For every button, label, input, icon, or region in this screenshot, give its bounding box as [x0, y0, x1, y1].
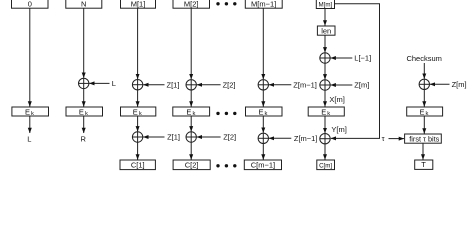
wire 0 to Ek [29, 8, 31, 106]
arrow Z into xor2 M[m-1] [269, 137, 291, 139]
xor M[m-1] + Z [258, 80, 268, 90]
svg-text:Z[2]: Z[2] [223, 133, 236, 142]
svg-text:Checksum: Checksum [406, 54, 441, 63]
box Ek col0 [12, 107, 49, 116]
xor Checksum + Z[m] [419, 79, 429, 89]
arrow L[-1] into xor [331, 57, 353, 59]
arrow L into xor [89, 82, 109, 84]
wire len to xor L[-1] [324, 35, 326, 52]
wire Ek to first tau bits [423, 116, 425, 134]
svg-text:L: L [27, 134, 31, 143]
wire xor2 to C M[2] [190, 142, 192, 159]
svg-text:M[m]: M[m] [319, 2, 333, 9]
box M[m-1] [245, 0, 282, 8]
svg-text:first τ bits: first τ bits [409, 134, 439, 143]
wire M[1] to xor [137, 8, 139, 79]
box Ek checksum [407, 107, 443, 116]
wire xor to Ek M[2] [190, 90, 192, 107]
box 0 [12, 0, 49, 8]
wire xor to xor Z[m] [324, 63, 326, 79]
wire xor2 to C M[m-1] [262, 144, 264, 160]
svg-text:Z[m−1]: Z[m−1] [294, 134, 318, 143]
box C M[2] [173, 160, 210, 170]
svg-text:E: E [258, 107, 263, 116]
label Ek colN [79, 107, 88, 117]
wire Ek colN to R [83, 116, 85, 133]
svg-text:Z[m]: Z[m] [354, 81, 369, 90]
svg-text:M[m−1]: M[m−1] [251, 0, 276, 9]
svg-text:X[m]: X[m] [329, 95, 344, 104]
wire first tau bits to T [422, 143, 424, 159]
box T [415, 160, 433, 169]
svg-text:len: len [321, 27, 331, 36]
box M[1] [121, 0, 156, 8]
arrow Z[m] into checksum xor [430, 83, 450, 85]
dots top row [216, 2, 236, 5]
wire Ek col0 to L [29, 116, 31, 133]
xor len + L[-1] [320, 53, 330, 63]
svg-text:M[1]: M[1] [131, 0, 146, 9]
svg-text:E: E [79, 107, 84, 116]
svg-text:0: 0 [28, 0, 32, 9]
svg-text:Z[m]: Z[m] [452, 80, 467, 89]
xor xor2 M[1] [132, 132, 142, 142]
label Ek col0 [25, 107, 34, 117]
wire Ek to xor2 M[1] [137, 116, 139, 131]
svg-text:E: E [321, 107, 326, 116]
wire xor3 to C[m] [324, 144, 326, 160]
box first tau bits [405, 134, 442, 143]
box Ek M[1] [121, 107, 156, 116]
svg-text:k: k [265, 111, 268, 117]
svg-text:E: E [25, 107, 30, 116]
svg-text:N: N [81, 0, 86, 9]
arrow Z into xor M[1] [143, 84, 164, 86]
svg-text:C[2]: C[2] [185, 161, 199, 170]
wire Checksum to xor [423, 63, 425, 79]
wire N to xor [83, 8, 85, 78]
arrow Z into xor M[m-1] [269, 84, 291, 86]
label Ek M[2] [186, 107, 195, 117]
label Ek M[m] [321, 107, 330, 117]
svg-text:k: k [31, 111, 34, 117]
wire xor to Ek M[m] [324, 90, 326, 106]
wire xor to Ek M[1] [137, 90, 139, 107]
arrow Z into xor2 M[2] [197, 136, 221, 138]
svg-text:L: L [112, 79, 116, 88]
svg-text:Z[m−1]: Z[m−1] [293, 81, 317, 90]
wire Ek to xor3 M[m] [324, 116, 326, 133]
svg-text:k: k [139, 111, 142, 117]
box C M[1] [120, 160, 155, 170]
box C M[m-1] [244, 160, 281, 170]
box len [317, 26, 335, 35]
svg-text:R: R [80, 134, 86, 143]
xor output xor M[m] [320, 134, 330, 144]
svg-text:C[m−1]: C[m−1] [251, 161, 275, 170]
svg-text:τ: τ [382, 134, 385, 143]
xor xor2 M[m-1] [258, 133, 268, 143]
label Ek M[1] [133, 107, 142, 117]
svg-text:M[2]: M[2] [184, 0, 199, 9]
xor M[1] + Z [132, 80, 142, 90]
xor + Z[m] [320, 80, 330, 90]
box C[m] [317, 160, 335, 170]
svg-text:Y[m]: Y[m] [331, 125, 346, 134]
wire Ek to xor2 M[2] [190, 116, 192, 131]
xor xor2 M[2] [186, 132, 196, 142]
svg-text:E: E [186, 107, 191, 116]
box Ek colN [66, 107, 103, 116]
box Ek M[m] [308, 107, 344, 116]
dots bottom row [216, 164, 236, 167]
wire xor to Ek M[m-1] [262, 90, 264, 107]
svg-text:C[1]: C[1] [131, 161, 145, 170]
box Ek M[m-1] [246, 107, 283, 116]
svg-text:C[m]: C[m] [319, 163, 332, 170]
wire M[2] to xor [190, 8, 192, 79]
box N [66, 0, 102, 8]
xor M[2] + Z [186, 80, 196, 90]
wire M[m] to len [324, 9, 326, 26]
svg-text:Z[2]: Z[2] [223, 81, 236, 90]
svg-text:k: k [426, 111, 429, 117]
label Ek checksum [419, 107, 428, 117]
box M[m] [316, 0, 334, 9]
box Ek M[2] [173, 107, 210, 116]
label Ek M[m-1] [258, 107, 267, 117]
arrow Z[m] into xor [331, 84, 353, 86]
arrow Z into xor M[2] [197, 84, 221, 86]
svg-text:k: k [192, 111, 195, 117]
svg-text:L[−1]: L[−1] [354, 54, 371, 63]
arrow Z into xor2 M[1] [143, 136, 164, 138]
svg-text:T: T [421, 160, 426, 169]
wire xor to Ek colN [83, 89, 85, 107]
wire Ek to xor2 M[m-1] [262, 116, 264, 133]
xor N + L [79, 78, 89, 88]
arrow tau into box [389, 138, 405, 140]
wire M[m] bypass to output xor [331, 4, 380, 139]
box M[2] [173, 0, 210, 8]
svg-text:k: k [327, 111, 330, 117]
dots middle row [216, 112, 236, 115]
wire checksum xor to Ek [423, 90, 425, 107]
svg-text:Z[1]: Z[1] [167, 80, 180, 89]
svg-text:Z[1]: Z[1] [167, 133, 180, 142]
svg-text:E: E [419, 107, 424, 116]
svg-text:k: k [85, 111, 88, 117]
svg-text:E: E [133, 107, 138, 116]
wire xor2 to C M[1] [137, 142, 139, 159]
wire M[m-1] to xor [262, 8, 264, 79]
